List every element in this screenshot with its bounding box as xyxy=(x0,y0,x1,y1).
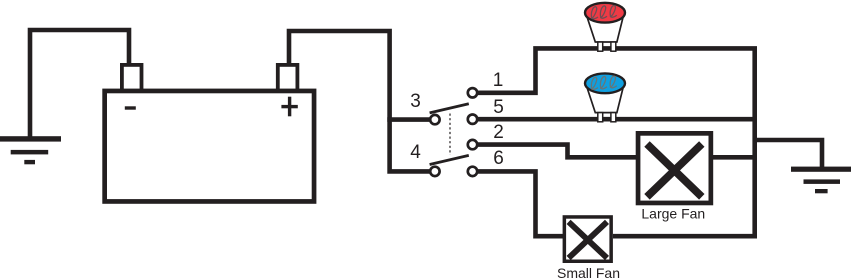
ground (left) xyxy=(0,136,61,164)
svg-text:5: 5 xyxy=(493,97,504,118)
wire right vertical to ground xyxy=(755,140,822,167)
wire large fan to right vertical xyxy=(712,155,755,160)
contact 5 xyxy=(468,115,477,124)
svg-text:3: 3 xyxy=(410,91,421,112)
wire battery positive to switch commons xyxy=(289,31,430,171)
lamp DS2 (blue) xyxy=(585,73,625,121)
wire branch to switch pole 3 xyxy=(387,117,429,122)
battery minus symbol xyxy=(125,106,136,109)
battery plus symbol xyxy=(281,97,297,117)
switch pole 3 contact xyxy=(430,115,439,124)
switch gang dashed link xyxy=(449,114,451,156)
svg-text:4: 4 xyxy=(410,142,421,163)
wire battery negative to ground xyxy=(30,30,129,137)
switch S1a blade (3 to 1) xyxy=(430,104,469,113)
contact 2 xyxy=(468,140,477,149)
svg-text:Small Fan: Small Fan xyxy=(557,265,620,280)
wire contact2 to large fan xyxy=(478,145,637,158)
lamp DS1 (red) xyxy=(585,3,625,51)
wire contact6 down to small fan xyxy=(478,171,565,236)
wire contact5 row xyxy=(478,117,755,122)
switch pole 4 contact xyxy=(430,167,439,176)
ground (right) xyxy=(791,167,851,194)
battery B1 xyxy=(105,65,314,202)
svg-text:6: 6 xyxy=(493,148,504,169)
svg-text:Large Fan: Large Fan xyxy=(641,206,705,222)
svg-text:1: 1 xyxy=(493,70,504,91)
fan M1 box xyxy=(638,133,711,203)
fan M2 box xyxy=(564,217,611,261)
contact 1 xyxy=(468,88,477,97)
switch S1b blade (4 to 2) xyxy=(430,155,469,164)
contact 6 xyxy=(468,167,477,176)
wire contact1 up and across top to right vertical down to small fan xyxy=(478,48,755,236)
svg-text:2: 2 xyxy=(493,122,504,143)
